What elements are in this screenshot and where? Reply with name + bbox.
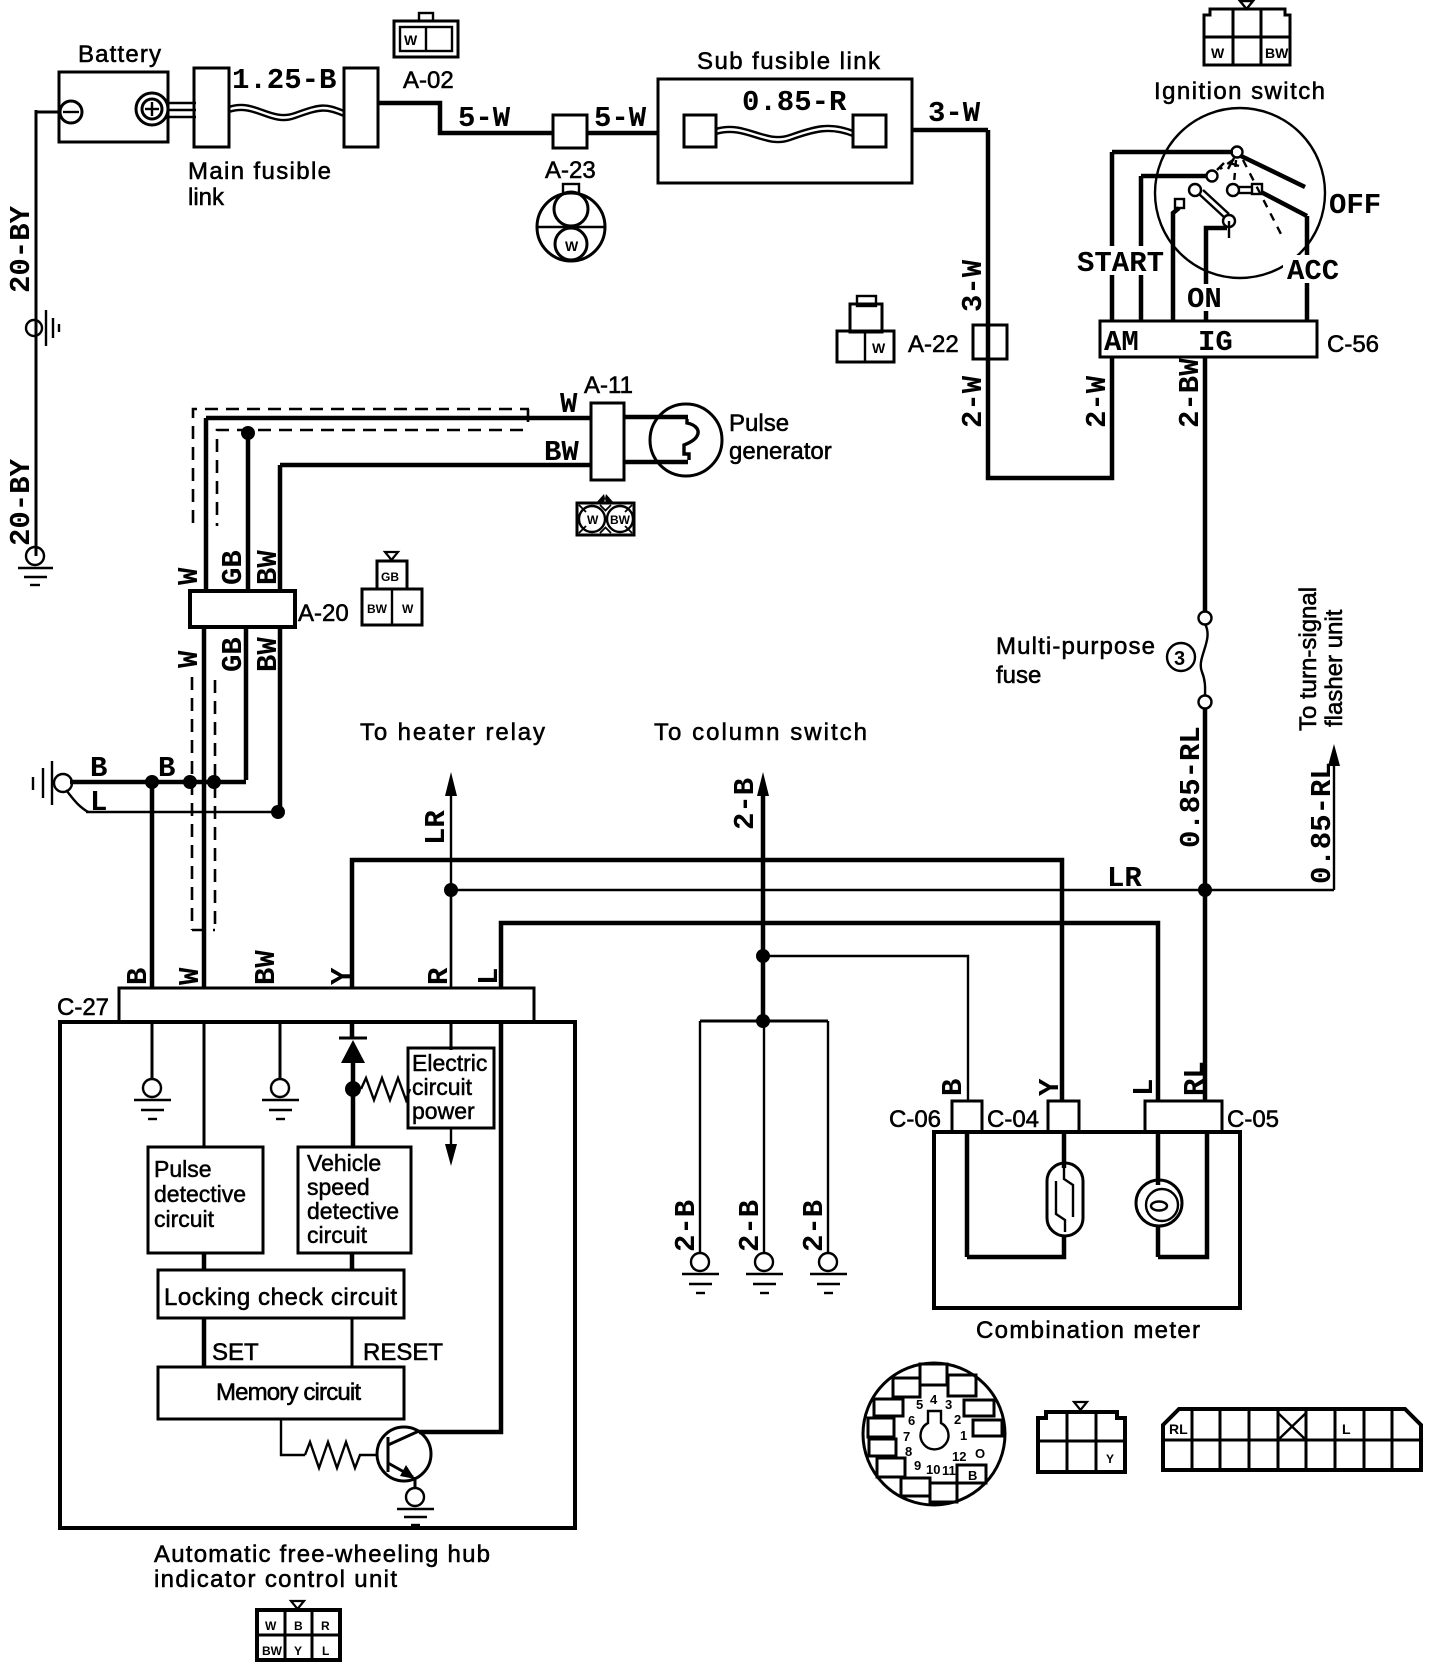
svg-text:C-04: C-04 <box>987 1106 1039 1133</box>
svg-text:Y: Y <box>1106 1452 1114 1466</box>
svg-text:2-B: 2-B <box>798 1200 831 1252</box>
svg-text:power: power <box>412 1098 475 1124</box>
svg-text:BW: BW <box>252 550 285 585</box>
svg-text:L: L <box>1128 1079 1161 1096</box>
svg-text:10: 10 <box>926 1462 940 1477</box>
svg-text:O: O <box>975 1446 985 1461</box>
svg-text:circuit: circuit <box>412 1074 473 1100</box>
svg-text:A-20: A-20 <box>298 600 349 627</box>
svg-text:Main fusible: Main fusible <box>188 158 331 185</box>
svg-text:Y: Y <box>1034 1078 1067 1096</box>
svg-text:link: link <box>188 184 225 211</box>
svg-text:flasher unit: flasher unit <box>1321 609 1348 727</box>
svg-text:BW: BW <box>250 950 283 985</box>
svg-text:2: 2 <box>954 1412 961 1427</box>
svg-text:RESET: RESET <box>363 1339 443 1366</box>
svg-text:speed: speed <box>307 1174 370 1200</box>
svg-text:To column switch: To column switch <box>654 719 867 746</box>
svg-text:indicator control unit: indicator control unit <box>154 1566 397 1593</box>
svg-text:2-BW: 2-BW <box>1174 358 1207 428</box>
svg-text:7: 7 <box>903 1429 910 1444</box>
svg-text:A-23: A-23 <box>545 157 596 184</box>
svg-text:Sub fusible link: Sub fusible link <box>697 48 881 75</box>
svg-text:A-02: A-02 <box>403 67 454 94</box>
svg-text:circuit: circuit <box>307 1222 368 1248</box>
svg-text:5: 5 <box>916 1397 923 1412</box>
svg-text:L: L <box>90 786 107 819</box>
svg-text:Electric: Electric <box>412 1050 487 1076</box>
svg-text:C-27: C-27 <box>57 994 109 1021</box>
svg-text:W: W <box>587 513 599 527</box>
svg-text:A-22: A-22 <box>908 331 959 358</box>
svg-text:5-W: 5-W <box>458 102 511 135</box>
svg-text:0.85-RL: 0.85-RL <box>1306 762 1339 884</box>
svg-text:9: 9 <box>914 1458 921 1473</box>
svg-text:circuit: circuit <box>154 1206 215 1232</box>
svg-text:5-W: 5-W <box>594 102 647 135</box>
svg-text:A-11: A-11 <box>584 372 633 399</box>
svg-text:B: B <box>968 1468 977 1483</box>
svg-text:C-56: C-56 <box>1327 331 1379 358</box>
svg-text:B: B <box>158 752 175 785</box>
svg-text:4: 4 <box>930 1392 938 1407</box>
svg-text:Pulse: Pulse <box>154 1156 212 1182</box>
svg-text:Automatic free-wheeling hub: Automatic free-wheeling hub <box>154 1541 490 1568</box>
svg-text:Multi-purpose: Multi-purpose <box>996 633 1155 660</box>
svg-text:Y: Y <box>326 967 359 985</box>
svg-text:W: W <box>404 32 418 48</box>
svg-text:W: W <box>402 602 414 616</box>
svg-text:Battery: Battery <box>78 41 161 68</box>
svg-text:R: R <box>423 967 456 985</box>
svg-text:GB: GB <box>381 570 399 584</box>
svg-text:GB: GB <box>217 550 250 585</box>
svg-text:3-W: 3-W <box>928 97 981 130</box>
svg-text:IG: IG <box>1198 326 1233 359</box>
svg-text:2-B: 2-B <box>729 778 762 830</box>
svg-text:W: W <box>565 238 579 254</box>
svg-text:Pulse: Pulse <box>729 410 789 437</box>
svg-text:BW: BW <box>544 436 579 469</box>
svg-text:1.25-B: 1.25-B <box>232 64 336 97</box>
svg-text:0.85-RL: 0.85-RL <box>1175 726 1208 848</box>
svg-text:ACC: ACC <box>1287 255 1339 288</box>
svg-text:Y: Y <box>294 1644 302 1658</box>
svg-text:0.85-R: 0.85-R <box>742 86 847 119</box>
svg-text:GB: GB <box>217 637 250 672</box>
svg-text:8: 8 <box>905 1444 912 1459</box>
svg-text:3-W: 3-W <box>957 259 990 312</box>
svg-text:detective: detective <box>307 1198 399 1224</box>
svg-text:B: B <box>937 1079 970 1096</box>
svg-text:BW: BW <box>610 513 631 527</box>
svg-text:Combination meter: Combination meter <box>976 1317 1200 1344</box>
svg-text:12: 12 <box>952 1449 966 1464</box>
svg-text:11: 11 <box>942 1463 956 1478</box>
svg-text:generator: generator <box>729 438 832 465</box>
svg-text:C-05: C-05 <box>1227 1106 1279 1133</box>
svg-text:AM: AM <box>1104 326 1139 359</box>
svg-text:3: 3 <box>1174 648 1185 670</box>
svg-text:B: B <box>294 1619 303 1633</box>
svg-text:2-W: 2-W <box>1081 375 1114 428</box>
svg-text:BW: BW <box>252 637 285 672</box>
svg-text:Locking check circuit: Locking check circuit <box>164 1284 397 1311</box>
svg-text:W: W <box>872 340 886 356</box>
svg-text:W: W <box>173 650 206 668</box>
svg-text:BW: BW <box>262 1644 283 1658</box>
svg-text:Memory circuit: Memory circuit <box>216 1379 361 1406</box>
svg-text:W: W <box>173 567 206 585</box>
svg-text:RL: RL <box>1179 1061 1212 1096</box>
svg-text:W: W <box>265 1619 277 1633</box>
svg-text:fuse: fuse <box>996 662 1041 689</box>
svg-text:L: L <box>473 968 506 985</box>
svg-text:L: L <box>1342 1421 1351 1437</box>
svg-text:1: 1 <box>960 1428 967 1443</box>
svg-text:Ignition switch: Ignition switch <box>1154 78 1325 105</box>
svg-text:LR: LR <box>1107 862 1142 895</box>
svg-text:Vehicle: Vehicle <box>307 1150 381 1176</box>
svg-text:B: B <box>122 968 155 985</box>
svg-text:SET: SET <box>212 1339 259 1366</box>
svg-text:R: R <box>321 1619 330 1633</box>
svg-text:W: W <box>174 967 207 985</box>
svg-text:To turn-signal: To turn-signal <box>1295 587 1322 731</box>
svg-text:detective: detective <box>154 1181 246 1207</box>
svg-text:RL: RL <box>1169 1421 1188 1437</box>
svg-text:B: B <box>90 752 107 785</box>
svg-text:BW: BW <box>367 602 388 616</box>
svg-text:LR: LR <box>420 810 453 845</box>
svg-text:C-06: C-06 <box>889 1106 941 1133</box>
svg-text:W: W <box>1211 45 1225 61</box>
svg-text:20-BY: 20-BY <box>5 205 38 293</box>
svg-text:L: L <box>322 1644 329 1658</box>
svg-text:2-B: 2-B <box>670 1200 703 1252</box>
svg-text:ON: ON <box>1187 283 1222 316</box>
svg-text:20-BY: 20-BY <box>5 458 38 546</box>
svg-text:6: 6 <box>908 1413 915 1428</box>
svg-text:2-B: 2-B <box>734 1200 767 1252</box>
svg-text:START: START <box>1077 247 1164 280</box>
svg-text:W: W <box>560 388 578 421</box>
svg-text:3: 3 <box>945 1397 952 1412</box>
svg-text:2-W: 2-W <box>957 375 990 428</box>
svg-text:BW: BW <box>1265 45 1289 61</box>
svg-text:OFF: OFF <box>1329 189 1381 222</box>
